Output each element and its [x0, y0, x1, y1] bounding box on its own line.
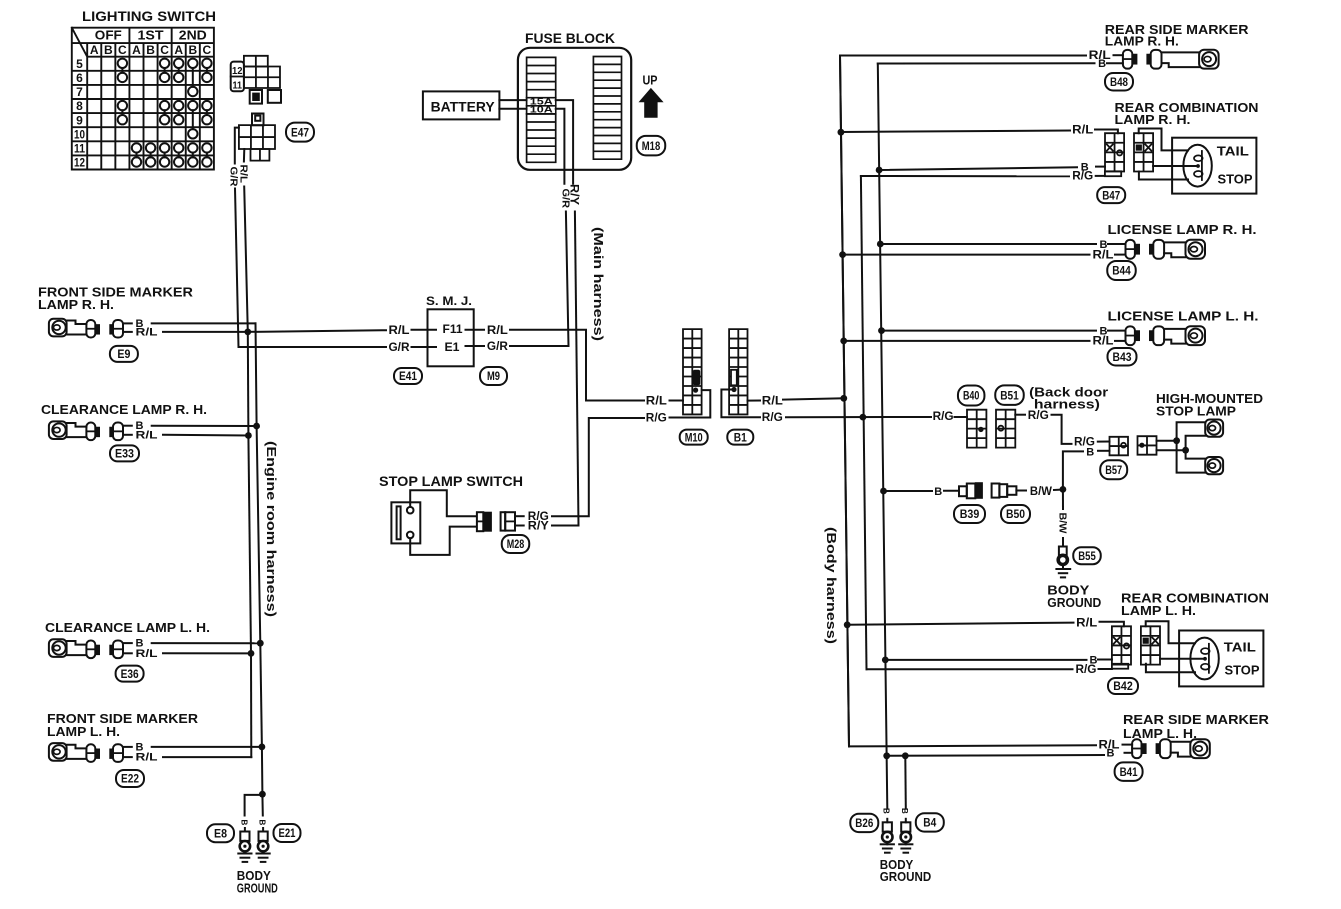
svg-text:F11: F11: [443, 322, 463, 336]
svg-text:BATTERY: BATTERY: [431, 99, 496, 115]
wire B from ground bus: [885, 659, 1112, 661]
wire battery to fuse block (10A): [499, 108, 526, 110]
svg-text:B: B: [188, 43, 197, 57]
label R/L: [136, 752, 158, 764]
junction R/L bus: [840, 338, 847, 345]
svg-text:7: 7: [76, 85, 83, 99]
svg-text:B40: B40: [963, 389, 980, 403]
svg-text:5: 5: [76, 57, 83, 71]
junction B bus: [257, 640, 264, 647]
connector B1: [729, 329, 747, 414]
svg-text:FUSE BLOCK: FUSE BLOCK: [525, 30, 615, 46]
label R/G: [1072, 169, 1093, 183]
label B (E21 lead): [258, 820, 267, 826]
svg-text:GROUND: GROUND: [237, 881, 278, 896]
connector B51: [996, 410, 1015, 448]
R/L bus (body harness): [840, 56, 849, 746]
svg-text:A: A: [174, 43, 183, 57]
label B/W (vertical): [1057, 513, 1069, 534]
label R/L: [1072, 123, 1093, 137]
label B: [1107, 747, 1115, 759]
svg-text:10: 10: [74, 127, 85, 141]
svg-text:B/W: B/W: [1057, 513, 1069, 534]
svg-text:B51: B51: [1000, 388, 1019, 402]
license lamp L.H. title: [1108, 309, 1259, 324]
wire R/G from R/G bus: [867, 664, 1129, 670]
E8 reference label: [207, 824, 234, 842]
license lamp R.H. (connector and bulb): [1126, 240, 1206, 259]
svg-text:R/L: R/L: [1072, 123, 1093, 137]
wire G/R: G/R bus to S.M.J. E1: [239, 346, 437, 348]
wire B from ground bus: [882, 330, 1126, 332]
label R/Y: [528, 519, 549, 533]
connector B39: [959, 483, 982, 499]
wire R/L to R/L bus: [163, 652, 251, 654]
E22 reference label: [116, 770, 144, 787]
svg-text:CLEARANCE LAMP R. H.: CLEARANCE LAMP R. H.: [41, 402, 207, 417]
junction B bus: [882, 657, 889, 664]
svg-text:R/L: R/L: [1093, 247, 1114, 261]
wires to tail/stop bulb: [1146, 621, 1204, 672]
svg-text:R/L: R/L: [136, 327, 158, 339]
wire R/L from R/L bus end: [849, 745, 1132, 747]
svg-text:1ST: 1ST: [138, 28, 164, 43]
wire B: ground bus to B39: [884, 490, 960, 492]
junction B bus: [883, 752, 890, 759]
M18 reference label: [637, 136, 666, 156]
fuse block M18: [518, 48, 631, 170]
svg-text:OFF: OFF: [95, 28, 122, 43]
svg-text:M10: M10: [685, 430, 703, 444]
E41 reference label: [394, 368, 422, 384]
svg-text:(Body harness): (Body harness): [824, 527, 839, 644]
svg-text:STOP LAMP: STOP LAMP: [1156, 404, 1236, 419]
svg-text:LAMP L. H.: LAMP L. H.: [1121, 603, 1196, 618]
wire B: lamp to ground bus: [152, 322, 256, 324]
wire R/L from R/L bus: [843, 254, 1126, 256]
svg-text:12: 12: [232, 65, 243, 77]
label B (B26 lead): [882, 808, 891, 814]
clearance lamp R.H. (bulb and connector): [49, 421, 132, 440]
label B/W: [1030, 484, 1053, 498]
wire R/L from lighting switch connector: [244, 149, 248, 332]
junction B bus: [259, 744, 266, 751]
svg-text:R/L: R/L: [1093, 334, 1114, 348]
svg-text:G/R: G/R: [389, 340, 410, 354]
wire B: B57 to B/W junction: [1063, 451, 1110, 490]
label B (B4 lead): [900, 808, 909, 814]
junction stop lamp return: [1182, 447, 1189, 454]
B41 reference label: [1115, 762, 1143, 781]
junction R/L bus: [248, 650, 255, 657]
junction R/L bus: [245, 432, 252, 439]
junction R/L bus: [839, 251, 846, 258]
svg-text:A: A: [90, 43, 99, 57]
svg-text:B: B: [146, 43, 155, 57]
svg-text:B: B: [882, 808, 891, 814]
svg-text:B: B: [239, 820, 248, 826]
svg-text:STOP: STOP: [1218, 172, 1253, 187]
svg-text:B1: B1: [734, 430, 747, 444]
wire R/L from R/L bus end: [163, 756, 251, 758]
label G/R (vertical): [228, 167, 240, 187]
label R/L: [1093, 334, 1114, 348]
ground E8: [238, 828, 251, 862]
svg-text:R/G: R/G: [1076, 662, 1097, 676]
svg-text:B44: B44: [1112, 264, 1131, 278]
B50 reference label: [1001, 505, 1030, 523]
connector E47 (pin view): [239, 114, 275, 161]
R/L bus (engine room): [248, 332, 252, 757]
label B: [1100, 239, 1108, 251]
junction B bus: [880, 488, 887, 495]
wire R/G to R/G bus: [861, 171, 1121, 176]
M28 reference label: [502, 535, 530, 553]
rear side marker lamp R.H. (connector and bulb): [1123, 50, 1219, 69]
label G/R: [389, 340, 410, 354]
wire to ground E8: [245, 795, 263, 816]
junction at ground branch: [259, 791, 266, 798]
svg-text:LAMP R. H.: LAMP R. H.: [38, 297, 114, 312]
wire B from ground bus: [879, 167, 1105, 170]
label R/L: [1076, 615, 1097, 629]
B51 reference label: [995, 385, 1024, 405]
label B: [136, 420, 144, 432]
svg-text:R/L: R/L: [389, 323, 410, 337]
svg-text:B26: B26: [855, 816, 873, 830]
svg-text:B: B: [1086, 446, 1094, 458]
wire B to ground bus: [152, 746, 262, 748]
wire to ground E21: [261, 794, 263, 815]
label R/L: [1099, 737, 1120, 751]
wire B/W to junction: [1054, 489, 1063, 491]
label R/L (vertical): [237, 165, 249, 184]
M10 reference label: [680, 430, 708, 445]
svg-text:STOP LAMP SWITCH: STOP LAMP SWITCH: [379, 473, 523, 489]
B47 reference label: [1097, 187, 1125, 203]
label R/L (right of S.M.J.): [487, 323, 508, 337]
svg-text:TAIL: TAIL: [1217, 143, 1249, 158]
wire R/L from R/L bus: [847, 622, 1124, 627]
lighting switch contact table: [72, 28, 214, 170]
wire R/G: B51 to B57: [1015, 415, 1109, 444]
B44 reference label: [1107, 261, 1136, 280]
lighting switch title: [82, 8, 216, 24]
label R/L: [1089, 48, 1111, 62]
rear combination lamp L.H. connectors B42: [1112, 626, 1160, 664]
ground B4: [899, 819, 912, 853]
label B: [934, 486, 942, 498]
wire R/G to stop lamp bulbs: [1157, 422, 1206, 472]
junction B/W: [1060, 486, 1067, 493]
wires to tail/stop bulb: [1139, 129, 1197, 180]
B ground bus (engine room): [256, 323, 263, 794]
B39 reference label: [954, 505, 985, 523]
svg-text:B39: B39: [960, 507, 980, 521]
B57 reference label: [1100, 460, 1127, 479]
wire G/R: S.M.J. to fuse 10A line: [466, 345, 569, 347]
fuse block title: [525, 30, 615, 46]
label R/G: [1076, 662, 1097, 676]
junction B4 branch: [902, 752, 909, 759]
svg-text:B47: B47: [1102, 188, 1120, 202]
engine room harness label: [264, 441, 279, 617]
svg-text:R/G: R/G: [1028, 408, 1049, 422]
svg-text:B55: B55: [1078, 549, 1096, 563]
clearance lamp R.H. title: [41, 402, 207, 417]
label B: [1090, 655, 1098, 667]
label R/G (right of B51): [1028, 408, 1049, 422]
wire 10A fuse output (G/R): [556, 109, 569, 346]
svg-text:2ND: 2ND: [179, 28, 207, 43]
svg-text:B43: B43: [1113, 350, 1132, 364]
svg-text:R/L: R/L: [136, 752, 158, 764]
label R/L: [1093, 247, 1114, 261]
svg-text:E9: E9: [117, 347, 130, 361]
svg-text:LAMP L. H.: LAMP L. H.: [1123, 726, 1197, 741]
wire R/G: B1 to B40 (back door feed): [721, 390, 967, 418]
label R/L: [136, 327, 158, 339]
lighting switch connector (pin-view with cavities 12/11): [231, 56, 281, 104]
ground E21: [257, 828, 270, 862]
svg-text:R/L: R/L: [1076, 615, 1097, 629]
junction R/L bus: [844, 621, 851, 628]
rear combination lamp R.H. connectors B47: [1105, 133, 1153, 171]
svg-text:R/L: R/L: [646, 394, 667, 408]
M9 reference label: [480, 367, 507, 385]
rear combination lamp L.H. title: [1121, 591, 1269, 619]
svg-text:A: A: [132, 43, 141, 57]
wire B to stop lamp bulbs: [1157, 436, 1206, 459]
label B: [1098, 58, 1106, 70]
label R/L: [136, 429, 158, 441]
svg-text:6: 6: [76, 71, 83, 85]
svg-text:E47: E47: [291, 125, 309, 139]
svg-text:TAIL: TAIL: [1224, 640, 1256, 655]
label R/L: [136, 648, 158, 660]
wire R/L: front side marker RH to S.M.J. F11: [163, 330, 436, 332]
label R/L: [389, 323, 410, 337]
junction stop lamp feed: [1173, 437, 1180, 444]
junction B bus: [878, 327, 885, 334]
label G/R (vertical): [559, 189, 570, 209]
E9 reference label: [110, 346, 138, 362]
E47 reference label: [286, 123, 314, 142]
B55 reference label: [1073, 547, 1101, 564]
svg-text:(Engine room harness): (Engine room harness): [264, 441, 279, 617]
junction R/L bus: [838, 129, 845, 136]
svg-text:B57: B57: [1105, 463, 1122, 477]
svg-text:B: B: [1098, 58, 1106, 70]
label R/G (right of B1): [762, 410, 783, 424]
wire R/L: S.M.J. to M10 (via corner): [466, 330, 684, 401]
stop lamp switch connector M28 (female half): [501, 512, 524, 530]
svg-text:STOP: STOP: [1225, 663, 1260, 678]
svg-text:R/L: R/L: [237, 165, 249, 184]
svg-text:E33: E33: [115, 447, 134, 461]
wire R/L to R/L bus: [163, 434, 248, 437]
svg-text:B41: B41: [1120, 765, 1138, 779]
svg-text:9: 9: [76, 113, 83, 127]
wire R/L from R/L bus: [841, 130, 1118, 134]
E36 reference label: [116, 666, 144, 682]
svg-text:M18: M18: [642, 139, 661, 153]
tail/stop bulb R.H.: [1172, 138, 1256, 194]
label B: [1100, 325, 1108, 337]
body harness label: [824, 527, 839, 644]
rear side marker lamp L.H. title: [1123, 712, 1270, 741]
back door harness label: [1029, 385, 1108, 412]
svg-text:R/L: R/L: [136, 429, 158, 441]
svg-text:B: B: [934, 486, 942, 498]
svg-text:B42: B42: [1113, 679, 1133, 693]
label R/L (left of M10): [646, 394, 667, 408]
svg-text:B: B: [1107, 747, 1115, 759]
wire R/L from R/L bus: [840, 55, 1123, 746]
svg-text:S. M. J.: S. M. J.: [426, 294, 472, 308]
svg-text:G/R: G/R: [487, 339, 508, 353]
S.M.J. junction box: [426, 294, 474, 366]
svg-text:E41: E41: [399, 369, 417, 383]
junction B bus: [876, 167, 883, 174]
svg-text:LICENSE LAMP R. H.: LICENSE LAMP R. H.: [1108, 222, 1257, 237]
svg-text:E22: E22: [121, 772, 139, 786]
stop lamp switch title: [379, 473, 523, 489]
B42 reference label: [1108, 678, 1138, 694]
high-mounted stop lamp bulb (upper): [1205, 420, 1223, 437]
rear side marker lamp L.H. (connector and bulb): [1132, 739, 1210, 758]
label R/G (left of B40): [933, 409, 954, 423]
rear side marker lamp R.H. title: [1105, 22, 1249, 49]
label B: [136, 638, 144, 650]
svg-text:G/R: G/R: [559, 189, 570, 209]
wire R/Y: stop lamp switch to fuse 15A line: [552, 525, 579, 527]
svg-text:R/G: R/G: [646, 411, 667, 425]
svg-text:C: C: [203, 43, 212, 57]
front side marker lamp L.H. title: [47, 711, 199, 739]
label R/G: [528, 509, 549, 523]
svg-text:8: 8: [76, 99, 83, 113]
wire B to ground bus: [152, 425, 257, 427]
R/G bus (body harness): [861, 176, 867, 669]
svg-text:E8: E8: [214, 826, 227, 840]
wire battery to fuse block (15A): [499, 99, 526, 101]
fusible link B55 and terminal: [1058, 547, 1067, 565]
svg-text:M9: M9: [487, 369, 500, 383]
svg-text:R/G: R/G: [762, 410, 783, 424]
label R/L (right of B1): [762, 394, 783, 408]
svg-text:M28: M28: [507, 537, 525, 551]
svg-text:(Main harness): (Main harness): [591, 227, 606, 341]
stop lamp switch connector (male half): [477, 512, 492, 531]
svg-text:R/Y: R/Y: [528, 519, 549, 533]
UP direction arrow: [639, 73, 664, 118]
label B (left of B57): [1086, 446, 1094, 458]
wire R/L: B1 to R/L bus: [748, 398, 844, 400]
svg-text:LAMP R. H.: LAMP R. H.: [1105, 34, 1179, 49]
E33 reference label: [110, 445, 139, 461]
svg-text:11: 11: [74, 142, 85, 156]
svg-text:LIGHTING SWITCH: LIGHTING SWITCH: [82, 8, 216, 24]
svg-text:E36: E36: [121, 667, 139, 681]
wire B from ground bus: [880, 243, 1125, 245]
label R/Y (vertical): [567, 184, 581, 205]
svg-text:C: C: [118, 43, 127, 57]
junction B bus: [877, 241, 884, 248]
main harness label: [591, 227, 606, 341]
svg-text:REAR SIDE MARKER: REAR SIDE MARKER: [1123, 712, 1270, 727]
svg-text:B/W: B/W: [1030, 484, 1053, 498]
clearance lamp L.H. (bulb and connector): [49, 639, 132, 658]
B1 reference label: [727, 430, 753, 445]
svg-text:CLEARANCE LAMP L. H.: CLEARANCE LAMP L. H.: [45, 620, 210, 635]
junction R/G wire / R/G bus: [860, 414, 867, 421]
svg-text:R/L: R/L: [136, 648, 158, 660]
body ground label (B55): [1047, 583, 1101, 611]
clearance lamp L.H. title: [45, 620, 210, 635]
connector B57 (lamp side): [1138, 436, 1157, 455]
connector B50: [992, 484, 1026, 498]
body ground label (right): [880, 857, 931, 884]
svg-text:B: B: [104, 43, 113, 57]
svg-text:R/L: R/L: [487, 323, 508, 337]
E21 reference label: [274, 824, 301, 842]
high-mounted stop lamp bulb (lower): [1205, 457, 1223, 474]
ground B26: [881, 819, 894, 853]
wire B to ground bus: [887, 753, 1132, 756]
connector M10: [683, 329, 702, 414]
connector B40: [967, 410, 986, 448]
junction R/L wire / R/L bus: [840, 395, 847, 402]
wire B to ground bus: [878, 62, 1123, 64]
svg-text:B48: B48: [1110, 75, 1128, 89]
B48 reference label: [1105, 73, 1133, 91]
svg-text:C: C: [160, 43, 169, 57]
svg-text:B: B: [258, 820, 267, 826]
B40 reference label: [958, 386, 985, 406]
svg-text:E21: E21: [279, 826, 296, 840]
svg-text:B: B: [900, 808, 909, 814]
B26 reference label: [850, 814, 878, 832]
label G/R (right of S.M.J.): [487, 339, 508, 353]
label R/G (left of B57): [1074, 435, 1095, 449]
rear combination lamp R.H. title: [1115, 100, 1259, 127]
label B (E8 lead): [239, 820, 248, 826]
junction B bus: [253, 423, 260, 430]
svg-text:LICENSE LAMP L. H.: LICENSE LAMP L. H.: [1108, 309, 1259, 324]
ground below B55: [1056, 565, 1070, 578]
stop lamp switch: [391, 490, 476, 555]
svg-text:R/G: R/G: [1072, 169, 1093, 183]
svg-text:E1: E1: [445, 340, 460, 354]
svg-text:12: 12: [74, 156, 85, 170]
B ground bus (body harness): [878, 64, 888, 809]
wire 15A fuse output (R/Y): [556, 100, 579, 525]
label B: [1081, 162, 1089, 174]
license lamp L.H. (connector and bulb): [1126, 326, 1206, 345]
license lamp R.H. title: [1108, 222, 1257, 237]
svg-text:LAMP L. H.: LAMP L. H.: [47, 724, 120, 739]
label R/G (left of M10): [646, 411, 667, 425]
svg-text:B4: B4: [923, 816, 936, 830]
wire B4 ground drop: [904, 756, 907, 808]
junction R/L bus / lamp wire: [244, 329, 251, 336]
front side marker lamp R.H. (bulb and connector): [49, 319, 132, 338]
high-mounted stop lamp title: [1156, 391, 1263, 419]
wire G/R from lighting switch connector: [235, 128, 239, 347]
label B: [136, 318, 144, 330]
front side marker lamp R.H. title: [38, 285, 194, 313]
